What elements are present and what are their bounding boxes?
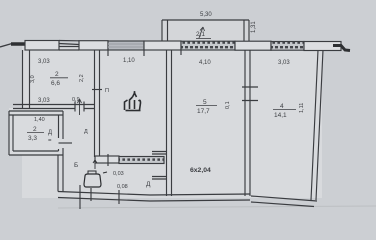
svg-text:14,1: 14,1 — [274, 112, 287, 119]
wall right hook — [333, 46, 350, 51]
svg-text:4,10: 4,10 — [199, 60, 211, 66]
svg-text:0,1: 0,1 — [225, 101, 231, 109]
svg-text:3,3: 3,3 — [28, 135, 37, 142]
svg-text:1,40: 1,40 — [34, 117, 45, 123]
box door tick — [59, 142, 73, 144]
svg-text:0,03: 0,03 — [113, 171, 124, 177]
wall segment W5 — [304, 42, 341, 51]
wall segment W1 — [25, 41, 59, 51]
hatched segment B — [271, 42, 304, 51]
svg-text:5: 5 — [203, 99, 207, 106]
svg-text:2: 2 — [33, 126, 37, 133]
entrance door ticks — [80, 185, 119, 209]
box right wall with door opening — [59, 111, 64, 139]
window gray — [108, 41, 144, 50]
svg-text:2,2: 2,2 — [79, 74, 85, 82]
svg-text:1,11: 1,11 — [299, 103, 305, 113]
balcony left rail — [162, 20, 168, 41]
hatched segment A (balcony door wall) — [181, 41, 235, 50]
faint photo shadow line bottom — [58, 206, 376, 208]
svg-text:2: 2 — [55, 71, 59, 78]
door jambs + arrow in room2 bottom wall — [75, 102, 84, 112]
svg-text:П: П — [105, 88, 109, 94]
balcony top rail — [162, 19, 249, 21]
door tick lower — [152, 177, 167, 180]
window edge ticks below band — [108, 50, 181, 56]
svg-text:Д: Д — [146, 181, 151, 188]
svg-text:0,9: 0,9 — [72, 97, 80, 103]
door tick upper — [152, 152, 167, 155]
svg-text:1,10: 1,10 — [123, 58, 135, 64]
balcony right rail — [244, 20, 249, 41]
box left wall — [9, 111, 13, 155]
wall left hook — [0, 44, 12, 48]
svg-text:3,03: 3,03 — [38, 98, 50, 104]
wall segment W4 — [235, 41, 271, 50]
door ticks to right room — [242, 87, 258, 101]
tick on room2/kitchen wall — [92, 89, 102, 91]
svg-text:5,30: 5,30 — [200, 12, 212, 18]
svg-text:Б: Б — [74, 162, 78, 169]
wall segment W3 — [144, 41, 181, 50]
box top wall — [9, 111, 63, 115]
svg-text:1,31: 1,31 — [251, 21, 257, 33]
svg-text:Д: Д — [84, 129, 88, 135]
svg-text:6х2,04: 6х2,04 — [190, 167, 211, 174]
svg-text:Д: Д — [48, 130, 52, 136]
svg-text:=: = — [48, 138, 52, 144]
svg-text:17,7: 17,7 — [197, 108, 210, 115]
svg-text:4: 4 — [280, 103, 284, 110]
svg-text:0,08: 0,08 — [117, 184, 128, 190]
stove glyph — [125, 93, 141, 111]
box bottom wall — [9, 151, 63, 155]
svg-text:3,0: 3,0 — [30, 75, 36, 83]
toilet symbol — [84, 174, 101, 187]
svg-text:3,03: 3,03 — [38, 59, 50, 65]
window 3-line — [59, 44, 79, 47]
svg-text:6,6: 6,6 — [51, 80, 60, 87]
svg-text:3,03: 3,03 — [278, 60, 290, 66]
apartment interior fill — [22, 45, 322, 198]
wall segment W2 — [79, 41, 108, 50]
